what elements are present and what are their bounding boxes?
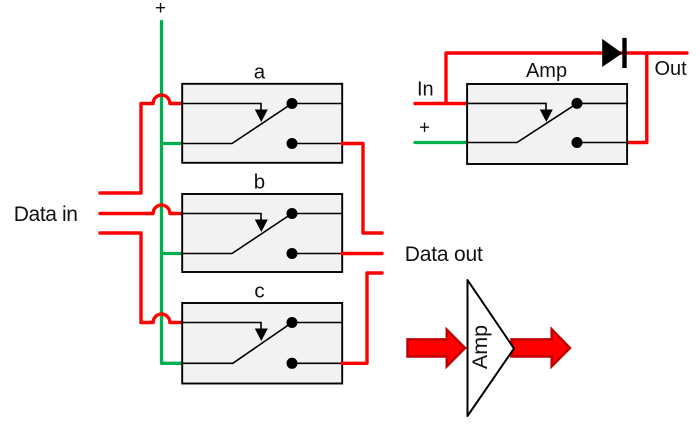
op-amp Amp triangle — [468, 280, 515, 416]
wire green branch to switch b — [162, 252, 182, 255]
switch U amp — [467, 84, 628, 164]
wire red In junction up to diode line and out — [446, 53, 687, 104]
wire red amp output up to diode line — [628, 53, 647, 143]
svg-text:In: In — [417, 79, 434, 101]
svg-text:Data in: Data in — [14, 203, 78, 226]
switch c — [182, 303, 342, 384]
svg-text:Out: Out — [655, 58, 688, 80]
diode D1 — [602, 38, 624, 68]
wire green supply vertical with branch to switch c — [162, 22, 182, 364]
wire red data-in middle branch to switch b (hop over green) — [100, 205, 181, 213]
switch b — [182, 194, 342, 272]
svg-text:+: + — [419, 118, 430, 139]
wire red data-in lower branch to switch c (hop over green) — [100, 233, 181, 323]
wire red amp In input — [415, 102, 466, 105]
arrow red output block arrow — [512, 329, 571, 366]
svg-text:b: b — [254, 171, 265, 194]
switch a — [182, 84, 342, 163]
wire red switch b output to data-out — [342, 252, 382, 255]
wire red data-in upper branch to switch a (hop over green) — [100, 95, 181, 193]
svg-text:Amp: Amp — [468, 325, 492, 369]
svg-text:Amp: Amp — [526, 60, 567, 82]
wire red switch a output down to data-out — [342, 144, 382, 234]
svg-text:a: a — [254, 61, 266, 84]
arrow red input block arrow — [408, 330, 466, 367]
svg-text:+: + — [155, 0, 166, 19]
wire green amp supply input — [415, 141, 466, 144]
wire green branch to switch a — [162, 142, 182, 145]
svg-text:c: c — [254, 280, 264, 303]
wire red switch c output up to data-out — [342, 273, 382, 363]
svg-text:Data out: Data out — [405, 243, 483, 266]
